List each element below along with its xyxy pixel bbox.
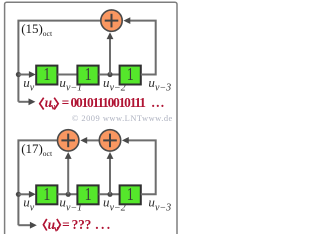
svg-text:© 2009 www.LNTwww.de: © 2009 www.LNTwww.de (72, 113, 173, 123)
svg-text:ν: ν (30, 83, 35, 94)
svg-text:ν−3: ν−3 (155, 83, 171, 94)
adder U3 (modulo-2 adder right) (99, 130, 120, 151)
register D6 (delay box "1") (120, 185, 141, 204)
svg-text:(15): (15) (21, 21, 43, 36)
register D5 (delay box "1") (77, 185, 98, 204)
svg-text:=???...: =???... (62, 217, 113, 232)
label u_v (23, 75, 35, 94)
svg-text:ν: ν (50, 102, 56, 113)
svg-text:ν−1: ν−1 (66, 202, 82, 213)
register D4 (delay box "1") (36, 185, 57, 204)
svg-text:ν−2: ν−2 (110, 202, 126, 213)
svg-text:ν: ν (53, 223, 59, 234)
svg-text:ν−2: ν−2 (110, 83, 126, 94)
wire: adder U3 output into adder U2 (80, 137, 99, 144)
wire: adder U2 output, top and left feedback run (18, 140, 59, 225)
wire: D5 to D6 (99, 193, 120, 195)
wire: adder U1 output, top and left feedback run (18, 21, 102, 102)
label u_v-2 (103, 75, 126, 94)
node u_v junction (d2) (16, 192, 21, 197)
svg-text:ν: ν (30, 202, 35, 213)
wire: input arrow into register D1 (18, 71, 35, 78)
label u_v-1 (59, 75, 82, 94)
label output sequence d1 (40, 95, 166, 113)
svg-text:1: 1 (43, 66, 50, 85)
wire: D2 to D3 (99, 74, 120, 76)
svg-text:ν−1: ν−1 (66, 83, 82, 94)
label u_v (d2) (23, 195, 35, 214)
svg-text:1: 1 (127, 186, 134, 205)
adder U2 (modulo-2 adder left) (57, 130, 78, 151)
svg-text:1: 1 (127, 66, 134, 85)
svg-text:(17): (17) (21, 141, 43, 156)
svg-text:1: 1 (85, 66, 92, 85)
wire: output arrow to sequence text (18, 98, 35, 105)
wire: tap u_v-2 up into adder U3 (107, 152, 114, 194)
wire: u_v-3 right feedback into adder U3 (122, 137, 156, 194)
adder U1 (modulo-2 adder) (101, 10, 122, 31)
node u_v-2 junction (107, 72, 112, 77)
svg-text:oct: oct (43, 29, 53, 38)
wire: u_v-3 right feedback into adder U1 (123, 17, 155, 74)
wire: tap u_v-1 up into adder U2 (65, 152, 72, 194)
svg-text:ν−3: ν−3 (155, 202, 171, 213)
wire: D4 to D5 (57, 193, 77, 195)
label u_v-3 (148, 75, 171, 94)
wire: input arrow into register D4 (18, 191, 35, 198)
node u_v junction (16, 72, 21, 77)
svg-text:oct: oct (43, 149, 53, 158)
svg-text:1: 1 (85, 186, 92, 205)
label u_v-3 (d2) (148, 195, 171, 214)
register D3 (delay box "1") (120, 66, 141, 85)
label (15)oct (21, 21, 53, 38)
label u_v-2 (d2) (103, 195, 126, 214)
wire: output arrow to sequence text (d2) (18, 222, 36, 229)
label u_v-1 (d2) (59, 195, 82, 214)
label (17)oct (21, 141, 53, 158)
svg-text:1: 1 (43, 186, 50, 205)
register D1 (delay box "1") (36, 66, 57, 85)
node u_v-1 junction (d2) (66, 192, 71, 197)
wire: D1 to D2 (57, 74, 77, 76)
node u_v-2 junction (d2) (107, 192, 112, 197)
register D2 (delay box "1") (77, 66, 98, 85)
wire: tap u_v-2 up into adder U1 (107, 32, 114, 74)
label output sequence d2 (43, 217, 112, 234)
